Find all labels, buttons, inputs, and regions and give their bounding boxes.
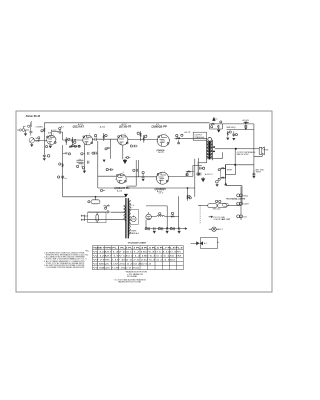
cap hanging at 179 — [177, 140, 180, 144]
svg-text:A-410: A-410 — [100, 126, 106, 129]
circled label on x84 line — [81, 153, 83, 155]
caps right of x84 — [88, 152, 89, 164]
ballast resistor pills — [208, 200, 227, 207]
wire rail to right drop — [222, 124, 254, 177]
coupling cap C3 — [93, 138, 98, 141]
svg-text:RES. A-6: RES. A-6 — [213, 208, 220, 211]
svg-text:12AX7: 12AX7 — [243, 203, 248, 206]
plate feed vertical from B+ rail — [43, 123, 45, 153]
table row texts — [93, 251, 183, 270]
PS wires — [151, 215, 178, 217]
power transformer T1 — [124, 194, 131, 238]
svg-text:B+: B+ — [216, 118, 218, 120]
svg-text:7: 7 — [82, 141, 83, 143]
wire from box top to feedback arrow — [225, 165, 227, 185]
svg-text:SPKR: SPKR — [263, 150, 269, 152]
svg-text:V1 12AX7 1.4V 100 0 1.2 160 6.: V1 12AX7 1.4V 100 0 1.2 160 6.3 0 1.4 10… — [93, 251, 183, 254]
svg-text:6BQ5: 6BQ5 — [243, 195, 248, 197]
wire to heater bus — [227, 205, 241, 207]
resistor R16 — [186, 171, 194, 176]
cap on bias feed — [232, 132, 237, 137]
grid resistor R6 — [103, 133, 107, 141]
speaker bottom wire — [254, 154, 262, 156]
svg-text:OFF-ON: OFF-ON — [103, 205, 111, 207]
svg-text:TERM.: TERM. — [256, 172, 262, 174]
svg-text:A-2 m: A-2 m — [62, 177, 67, 180]
coupling cap C7 — [143, 135, 147, 143]
ground below pot — [30, 144, 33, 147]
svg-text:2: 2 — [117, 141, 118, 143]
svg-text:9: 9 — [169, 139, 170, 141]
cap on screen line — [105, 148, 110, 150]
heater bus vertical — [240, 187, 242, 221]
cap with ground right — [142, 171, 145, 181]
tube V2 12AX7 — [82, 134, 93, 145]
tube V1 12AX7 — [46, 134, 57, 145]
RC group A140V — [244, 122, 250, 130]
tone cluster — [76, 159, 86, 174]
svg-text:2: 2 — [156, 179, 157, 181]
resistor R3 on feed — [44, 128, 45, 131]
filter cap row wire — [146, 228, 186, 230]
rectifier tube V6 — [146, 212, 152, 220]
svg-text:V4 6BQ5 7.0V 250 0 250 260 6.3: V4 6BQ5 7.0V 250 0 250 260 6.3 — [93, 264, 151, 266]
svg-text:TRANS A-4: TRANS A-4 — [130, 232, 139, 235]
tube V5 6BQ5 — [156, 171, 170, 184]
svg-text:V.: V. — [85, 258, 87, 260]
arrow at transformer top — [124, 194, 127, 197]
V1 cathode parts — [46, 146, 51, 148]
caps row 2 — [197, 173, 201, 176]
wire to V2 grid — [63, 132, 83, 140]
svg-text:MMF 6BQ5: MMF 6BQ5 — [227, 127, 236, 129]
wire to V4 grid — [128, 139, 158, 141]
caps below V3 — [133, 145, 138, 148]
svg-text:TUBE TYPE PL.1 PL.2 PL.3 PL.4: TUBE TYPE PL.1 PL.2 PL.3 PL.4 PL.5 PL.6 … — [93, 247, 184, 250]
svg-text:3: 3 — [123, 172, 124, 174]
transformer lower connections — [198, 158, 206, 176]
pilot lamp PL1 — [209, 227, 219, 231]
svg-text:A-111: A-111 — [78, 123, 83, 126]
cap at 186-190 — [187, 173, 188, 176]
circled ref left of transformer — [100, 189, 102, 191]
border frame of schematic sheet — [16, 111, 272, 292]
ground below C1 — [30, 134, 32, 135]
heater pair top — [237, 194, 243, 197]
svg-text:A-212: A-212 — [159, 151, 164, 154]
bottom tap wire — [213, 152, 223, 158]
feedback wire y188 — [98, 187, 195, 189]
filter cap C12 — [158, 227, 163, 230]
cap cluster at 93,153 — [92, 152, 98, 155]
svg-text:A.C.: A.C. — [204, 242, 208, 245]
plate resistor chain right — [137, 131, 141, 141]
svg-text:A 140V: A 140V — [243, 119, 250, 122]
resistor on bias feed — [227, 131, 231, 137]
rectifier socket box — [129, 209, 138, 224]
phase splitter tube V3B — [115, 172, 126, 183]
bus corner to PS — [63, 196, 126, 198]
fuse in box — [96, 212, 99, 223]
under-table notes — [114, 271, 148, 284]
decoupling cap C4 — [43, 153, 50, 161]
svg-text:V3 7199 2.1V 160 0 2.0 210 6.3: V3 7199 2.1V 160 0 2.0 210 6.3 0 2.1 160 — [93, 260, 175, 262]
tube V4 6BQ5 — [156, 133, 170, 146]
tube V3 7199 — [117, 133, 129, 145]
screen vertical line — [109, 139, 111, 159]
tiny text left of table — [85, 250, 89, 260]
small pill far left on heater line — [222, 203, 228, 206]
svg-text:A-103: A-103 — [51, 129, 57, 132]
ground bias — [226, 137, 229, 141]
filter cap C10 — [145, 227, 150, 230]
secondary wire to speaker — [215, 148, 259, 150]
AC plug P1 — [81, 215, 88, 221]
vertical feedback line — [97, 141, 99, 188]
socket circle — [131, 216, 136, 221]
svg-text:9: 9 — [168, 177, 169, 179]
screen resistor — [175, 134, 183, 139]
table grid — [92, 246, 183, 270]
double verticals right of splitter — [136, 160, 138, 186]
top right RC group — [210, 121, 223, 129]
ground under V3 area — [123, 159, 126, 164]
dashed drop line — [199, 205, 201, 224]
ground left of screen line — [103, 159, 111, 162]
resistor R5 — [72, 137, 76, 145]
resistor R21 vertical — [187, 187, 192, 200]
interlock box — [88, 212, 106, 223]
svg-text:CLOCKWISE POSITION VIEWED FROM: CLOCKWISE POSITION VIEWED FROM FRONT. — [46, 267, 85, 269]
box side wires — [221, 168, 226, 178]
svg-text:MATCH SPKR: MATCH SPKR — [237, 153, 249, 156]
wire to V3 — [98, 138, 118, 140]
components row y145-148 — [71, 145, 81, 147]
coupling cap C2 — [57, 130, 63, 133]
arrow to pilot feed — [183, 228, 186, 230]
svg-text:NO SIGNAL: NO SIGNAL — [127, 275, 137, 278]
svg-text:6.3 V: 6.3 V — [159, 192, 164, 194]
svg-text:Fisher 66-42: Fisher 66-42 — [26, 114, 41, 118]
ant gnd terminal — [252, 170, 255, 178]
svg-text:A-9: A-9 — [61, 125, 64, 128]
wire lower signal — [98, 175, 157, 178]
svg-text:(2)6BQ5 PP: (2)6BQ5 PP — [152, 127, 168, 129]
volume pot R2 — [29, 138, 34, 145]
svg-text:6: 6 — [125, 133, 126, 135]
ground under caps — [201, 177, 204, 182]
resistor on bus — [59, 163, 64, 167]
output transformer T2 winding — [207, 137, 213, 160]
svg-text:2: 2 — [46, 140, 47, 142]
junction dot — [179, 138, 180, 139]
svg-text:V2 12AX7 1.6V 140 0 1.4 180 6.: V2 12AX7 1.6V 140 0 1.4 180 6.3 0 1.6 14… — [93, 255, 182, 258]
wire pot to V1 grid — [35, 139, 47, 141]
filter cap C13 with ground — [166, 227, 169, 234]
arrow pilot note — [209, 216, 213, 218]
svg-text:6: 6 — [56, 139, 57, 141]
heater pair mid — [237, 202, 243, 205]
circled part near bus corner — [188, 195, 191, 198]
resistor left of box lower — [218, 177, 225, 180]
vertical pair lines — [195, 159, 198, 197]
circled ref right of V4 — [181, 134, 183, 136]
svg-text:1: 1 — [53, 134, 54, 136]
input jack J1 — [17, 126, 27, 136]
svg-text:TRANS A-8: TRANS A-8 — [194, 136, 204, 139]
capacitor C1 — [29, 131, 32, 135]
svg-text:6X4: 6X4 — [243, 216, 246, 218]
AC switch S1 — [105, 205, 110, 213]
cathode resistor right — [125, 156, 130, 158]
svg-text:60 ~: 60 ~ — [130, 207, 134, 209]
junction dot — [75, 139, 76, 140]
bias feed wire — [226, 130, 254, 141]
AC plug bowtie symbol — [196, 241, 203, 245]
svg-text:1: 1 — [115, 179, 116, 181]
cathode ground V1 — [49, 146, 52, 149]
label box output trans — [193, 132, 206, 140]
svg-text:A-707: A-707 — [122, 123, 127, 126]
filter cap C11 with ground — [153, 227, 156, 234]
svg-text:A-116: A-116 — [117, 189, 122, 192]
AC lines — [88, 212, 125, 219]
table header text — [93, 247, 184, 250]
V2 cathode network row — [69, 145, 80, 148]
caps row 1 — [200, 167, 205, 170]
filter cap C15 with ground — [178, 227, 181, 234]
svg-text:A-195 TO: A-195 TO — [205, 173, 213, 176]
circle and ground at 217 — [216, 181, 219, 187]
svg-text:(2)7199 TR: (2)7199 TR — [119, 126, 132, 128]
taps to right with dots — [213, 147, 215, 151]
cap at bus lower — [57, 176, 64, 178]
cap resistor on bus y154 — [63, 153, 71, 155]
wire to transformer primary top — [183, 138, 207, 139]
svg-text:6: 6 — [89, 134, 90, 136]
ground under RC group — [217, 130, 220, 133]
splitter bottom wire — [126, 185, 136, 187]
speaker SP1 — [259, 147, 264, 155]
heater pair low — [237, 215, 243, 218]
heater feed wire — [198, 204, 208, 206]
grid stopper marks — [38, 139, 39, 141]
svg-text:500K: 500K — [36, 138, 41, 140]
resistor R4 — [66, 137, 70, 145]
fuse F1 on line — [88, 196, 100, 204]
svg-text:VOL: VOL — [36, 141, 41, 143]
svg-text:V-4: V-4 — [156, 124, 159, 126]
svg-text:PIN: PIN — [85, 250, 89, 252]
junction dot on speaker wire — [235, 148, 236, 149]
cap between verticals — [133, 169, 138, 172]
svg-text:V5 6BQ5 7.0V 250 0 250: V5 6BQ5 7.0V 250 0 250 — [93, 268, 139, 270]
V3 cathode ground triangle — [123, 145, 127, 163]
bus vertical from stage2 down — [62, 145, 64, 197]
svg-text:A-8 TR: A-8 TR — [185, 131, 191, 134]
svg-text:TAKEN WITH 117V LINE: TAKEN WITH 117V LINE — [118, 281, 142, 284]
svg-text:PILOT&DIAL LIGHTS: PILOT&DIAL LIGHTS — [226, 198, 246, 201]
up arrow under box — [224, 182, 227, 185]
V5 plate wire to transformer bottom — [168, 165, 202, 176]
resistor R1 — [27, 121, 31, 130]
resistor R20 — [170, 212, 175, 217]
svg-text:A.C. OUT: A.C. OUT — [222, 218, 231, 221]
wire V1 plate out — [51, 132, 59, 136]
AC outlet box — [191, 238, 219, 249]
svg-text:6.3 V: 6.3 V — [219, 229, 224, 231]
cap left of splitter — [106, 168, 113, 171]
choke L1 — [157, 213, 165, 217]
wire y185.7 to heater drop — [226, 186, 242, 205]
speaker terminal box — [225, 149, 254, 175]
svg-text:VOLTAGE CHART: VOLTAGE CHART — [128, 242, 147, 245]
svg-text:SPKR: SPKR — [227, 169, 233, 171]
svg-text:NO.: NO. — [85, 254, 89, 256]
filter cap C14 — [170, 227, 175, 230]
vertical line x84.4 — [83, 144, 85, 171]
B+ rail — [44, 122, 209, 124]
resistor left of box upper — [218, 168, 225, 171]
wire jack to grid network — [25, 129, 29, 131]
svg-text:2.2MEG: 2.2MEG — [36, 126, 44, 128]
solid up arrow — [213, 117, 216, 121]
